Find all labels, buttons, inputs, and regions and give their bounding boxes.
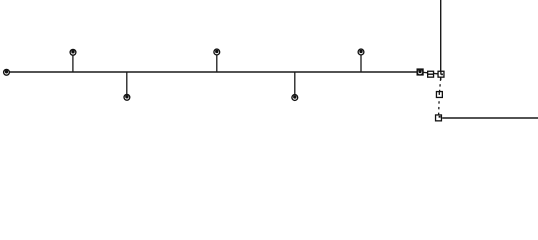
- node T3 marker: [358, 49, 364, 55]
- wire: stub up to node T1: [72, 52, 74, 72]
- wire: stub up to node T3: [360, 52, 362, 72]
- wire: stub down to node B2: [294, 72, 296, 98]
- node T1 marker: [70, 49, 76, 55]
- node L: left end connection marker: [4, 69, 10, 75]
- wire: dashed rubber-band polyline S2 to S3 to S4: [439, 74, 442, 118]
- wire: stub up to node T2: [216, 52, 218, 72]
- wire: vertical line from top: [440, 0, 442, 80]
- handle S2 corner: [438, 71, 444, 77]
- handle S1 midpoint: [428, 71, 434, 77]
- wire: main horizontal bus line: [7, 71, 421, 73]
- node B2 marker: [292, 95, 298, 101]
- wire: stub down to node B1: [126, 72, 128, 97]
- handle S4 corner: [436, 115, 442, 121]
- handle S3 midpoint: [436, 92, 442, 98]
- node R: right end connection marker over S0: [417, 69, 423, 75]
- wire: slanted end segment to S2: [420, 72, 441, 74]
- wire: bottom horizontal line: [442, 117, 538, 119]
- handle S0 at line right end: [417, 69, 423, 75]
- node T2 marker: [214, 49, 220, 55]
- node B1 marker: [124, 94, 130, 100]
